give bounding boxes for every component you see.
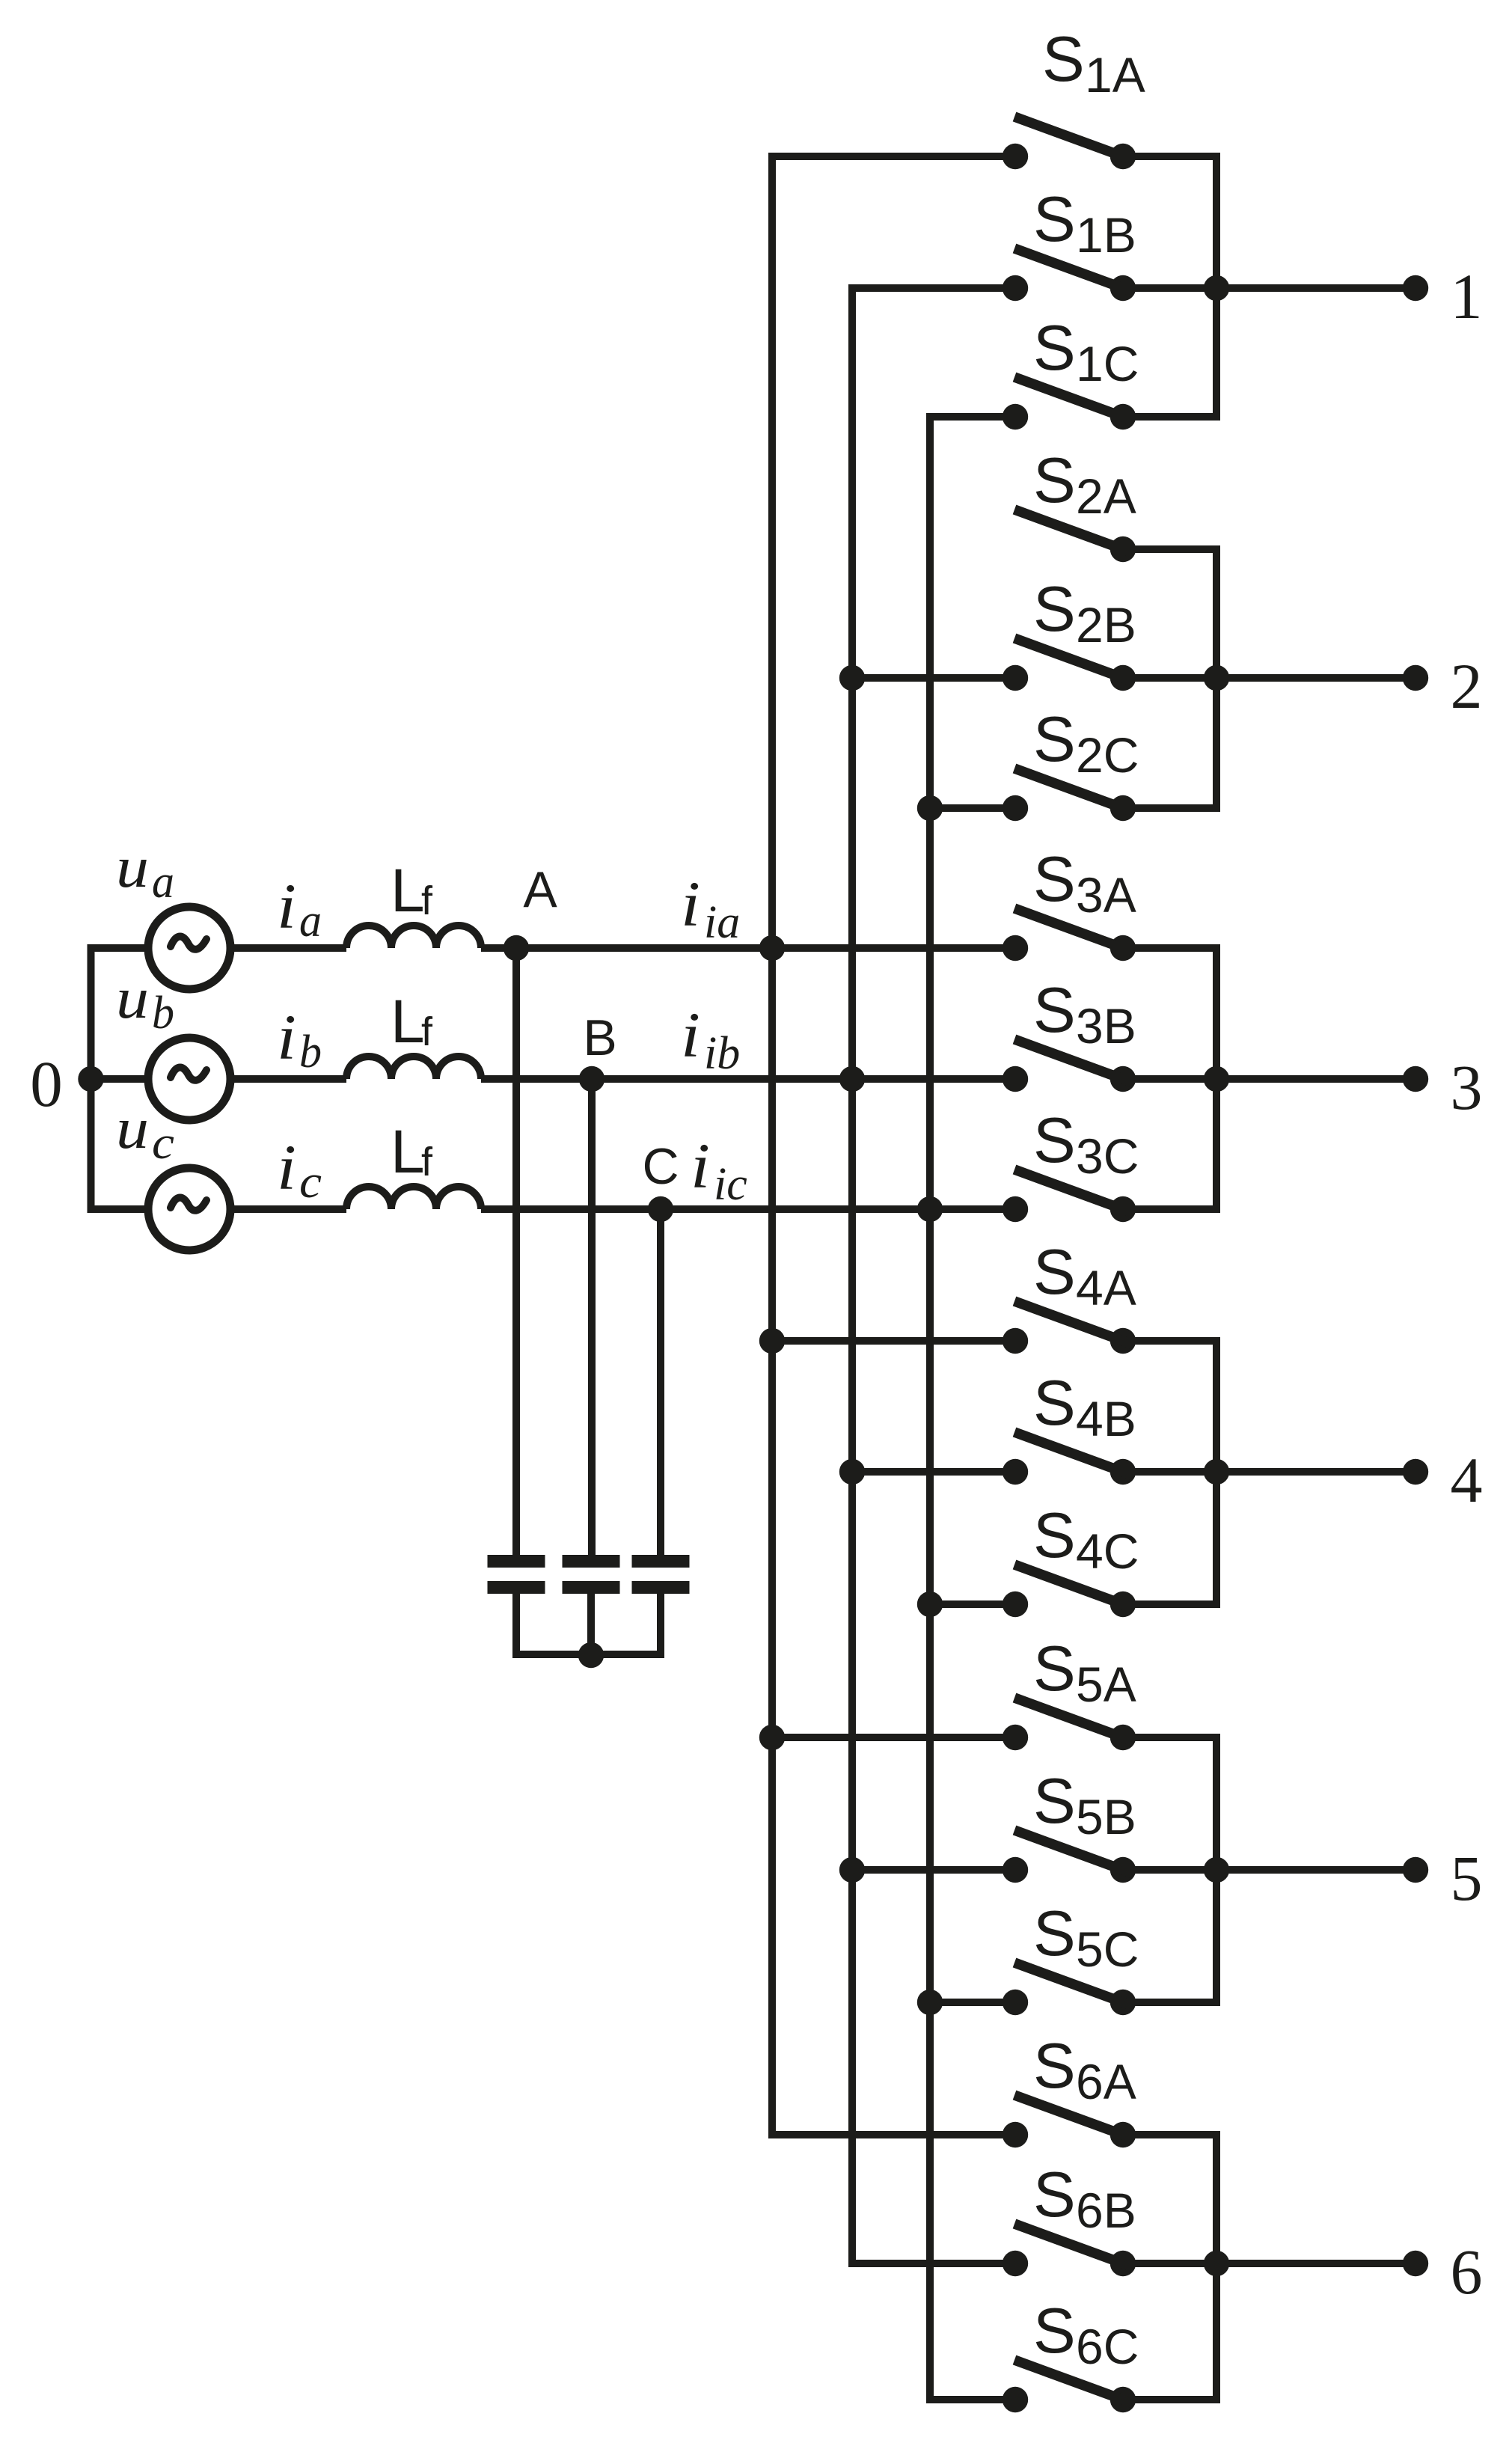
output terminal 3 dot	[1403, 1066, 1428, 1092]
switch S6A right contact	[1110, 2122, 1136, 2147]
wire: node A down to capacitor Ca	[512, 948, 520, 1556]
switch S4C lever	[1014, 1565, 1132, 1608]
output terminal 1 dot	[1403, 275, 1428, 301]
switch S3C lever	[1014, 1170, 1132, 1213]
switch S6C lever	[1014, 2360, 1132, 2403]
svg-text:S: S	[1033, 1105, 1076, 1176]
switch S6A lever	[1014, 2095, 1132, 2138]
svg-text:A: A	[523, 861, 557, 918]
svg-text:3A: 3A	[1076, 867, 1136, 923]
switch S2B left contact	[1003, 665, 1028, 691]
capacitor Ca top plate	[488, 1555, 545, 1568]
switch S3B right contact	[1110, 1066, 1136, 1092]
node A junction dot	[504, 935, 529, 961]
svg-text:4C: 4C	[1076, 1523, 1139, 1579]
switch S2C lever	[1014, 768, 1132, 812]
svg-text:ic: ic	[714, 1159, 747, 1210]
wire: capacitor common bottom rail with corners to Ca and Cc	[516, 1592, 661, 1654]
svg-text:i: i	[691, 1130, 710, 1202]
svg-text:2C: 2C	[1076, 727, 1139, 783]
wire: inductor Lf to switch row S3A (node A row)	[481, 944, 1015, 952]
svg-text:B: B	[583, 1009, 616, 1066]
wire: S1B right contact to group 1 bar	[1123, 284, 1216, 292]
wire: phase A bus to S4A left contact	[772, 1337, 1015, 1345]
switch S5A right contact	[1110, 1725, 1136, 1750]
wire: S2B right contact to group 2 bar	[1123, 674, 1216, 682]
node C junction dot	[648, 1196, 673, 1222]
wire: group 1 bar to output terminal 1	[1216, 284, 1415, 292]
svg-text:S: S	[1033, 1500, 1076, 1571]
svg-text:b: b	[299, 1027, 322, 1077]
switch S6A left contact	[1003, 2122, 1028, 2147]
wire: group 5 output bar (vertical, corners to S5A and S5C right contacts)	[1123, 1737, 1216, 2002]
switch S4A left contact	[1003, 1328, 1028, 1354]
svg-text:1: 1	[1451, 260, 1483, 332]
svg-text:S: S	[1033, 2296, 1076, 2367]
svg-text:c: c	[152, 1118, 174, 1169]
wire: group 3 output bar (vertical, corners to S3A and S3C right contacts)	[1123, 948, 1216, 1209]
switch S4B right contact	[1110, 1459, 1136, 1485]
switch S3B left contact	[1003, 1066, 1028, 1092]
wire: phase B bus (vertical, corners to S1B and S6B)	[852, 288, 1015, 2263]
inductor Lf (phase c)	[346, 1187, 481, 1209]
svg-text:6A: 6A	[1076, 2054, 1136, 2109]
junction: phase B bus tap for S4B	[839, 1459, 865, 1485]
wire: node B down to capacitor Cb	[588, 1079, 596, 1556]
svg-text:u: u	[116, 1095, 149, 1161]
switch S4A right contact	[1110, 1328, 1136, 1354]
junction: group 3 bar at output row	[1204, 1066, 1229, 1092]
wire: group 2 bar to output terminal 2	[1216, 674, 1415, 682]
svg-text:0: 0	[30, 1048, 63, 1120]
switch S4C left contact	[1003, 1592, 1028, 1617]
switch S3A right contact	[1110, 935, 1136, 961]
wire: source ub to inductor Lf	[230, 1075, 346, 1083]
switch S2C right contact	[1110, 795, 1136, 821]
node 0 junction dot	[78, 1066, 103, 1092]
capacitor Ca bottom plate	[488, 1581, 545, 1594]
svg-text:2: 2	[1451, 650, 1483, 722]
svg-text:i: i	[277, 870, 296, 942]
svg-text:i: i	[681, 868, 700, 940]
wire: S4B right contact to group 4 bar	[1123, 1468, 1216, 1476]
svg-text:C: C	[642, 1138, 679, 1195]
wire: S5B right contact to group 5 bar	[1123, 1866, 1216, 1874]
svg-text:f: f	[421, 1140, 433, 1184]
switch S2A right contact	[1110, 536, 1136, 562]
AC source ua sine symbol	[171, 937, 206, 950]
switch S3B lever	[1014, 1039, 1132, 1083]
switch S2C left contact	[1003, 795, 1028, 821]
switch S1A lever	[1014, 117, 1132, 160]
switch S5B left contact	[1003, 1857, 1028, 1883]
wire: phase A bus to S5A left contact	[772, 1734, 1015, 1741]
switch S2B lever	[1014, 638, 1132, 682]
svg-text:5A: 5A	[1076, 1657, 1136, 1712]
junction: phase A bus tap for S5A	[759, 1725, 785, 1750]
svg-text:S: S	[1033, 2031, 1076, 2102]
wire: phase C bus to S5C left contact	[930, 1999, 1015, 2006]
junction: phase A bus tap for S3A	[759, 935, 785, 961]
inductor Lf (phase a)	[346, 926, 481, 948]
svg-text:5B: 5B	[1076, 1789, 1136, 1844]
svg-text:a: a	[299, 896, 322, 947]
junction: phase B bus tap for S5B	[839, 1857, 865, 1883]
junction: group 6 bar at output row	[1204, 2251, 1229, 2276]
switch S5C lever	[1014, 1963, 1132, 2006]
AC source uc sine symbol	[171, 1198, 206, 1211]
wire: inductor Lf to switch row S3C (node C row)	[481, 1205, 1015, 1213]
wire: source ua to inductor Lf	[230, 944, 346, 952]
svg-text:S: S	[1033, 1368, 1076, 1439]
junction: group 4 bar at output row	[1204, 1459, 1229, 1485]
switch S5C right contact	[1110, 1990, 1136, 2015]
wire: S6B right contact to group 6 bar	[1123, 2260, 1216, 2267]
svg-text:S: S	[1033, 445, 1076, 516]
svg-text:3B: 3B	[1076, 998, 1136, 1054]
AC source ub sine symbol	[171, 1068, 206, 1080]
wire: node 0 rail to source ub	[91, 1075, 149, 1083]
svg-text:4: 4	[1451, 1444, 1483, 1516]
capacitor Cc bottom plate	[632, 1581, 690, 1594]
junction: phase C bus tap for S4C	[917, 1592, 943, 1617]
svg-text:4B: 4B	[1076, 1391, 1136, 1446]
junction: group 5 bar at output row	[1204, 1857, 1229, 1883]
wire: S3B right contact to group 3 bar	[1123, 1075, 1216, 1083]
svg-text:f: f	[421, 878, 433, 923]
svg-text:b: b	[152, 988, 174, 1039]
wire: group 3 bar to output terminal 3	[1216, 1075, 1415, 1083]
junction: phase B bus tap for S2B	[839, 665, 865, 691]
wire: phase A bus (vertical, corners to S1A and S6A)	[772, 156, 1015, 2135]
switch S3C left contact	[1003, 1196, 1028, 1222]
switch S1C left contact	[1003, 404, 1028, 429]
AC source ua (circle)	[148, 907, 230, 989]
capacitor Cb bottom plate	[563, 1581, 620, 1594]
wire: group 6 output bar (vertical, corners to S6A and S6C right contacts)	[1123, 2135, 1216, 2400]
capacitor common node dot	[578, 1642, 604, 1668]
wire: phase B bus to S2B left contact	[852, 674, 1015, 682]
switch S6C left contact	[1003, 2387, 1028, 2412]
svg-text:S: S	[1033, 313, 1076, 384]
svg-text:1C: 1C	[1076, 336, 1139, 391]
svg-text:ia: ia	[704, 897, 740, 948]
svg-text:3C: 3C	[1076, 1128, 1139, 1184]
junction: phase A bus tap for S4A	[759, 1328, 785, 1354]
switch S6B lever	[1014, 2224, 1132, 2267]
wire: phase C bus (vertical, corners to S1C and S6C)	[930, 417, 1015, 2400]
svg-text:S: S	[1033, 184, 1076, 255]
wire: phase B bus to S4B left contact	[852, 1468, 1015, 1476]
switch S2A lever	[1014, 510, 1132, 553]
switch S3C right contact	[1110, 1196, 1136, 1222]
svg-text:a: a	[152, 857, 174, 908]
svg-text:2B: 2B	[1076, 597, 1136, 652]
wire: group 2 output bar (vertical, corners to S2A and S2C right contacts)	[1123, 549, 1216, 808]
svg-text:6: 6	[1451, 2236, 1483, 2308]
switch S3A lever	[1014, 908, 1132, 952]
output terminal 5 dot	[1403, 1857, 1428, 1883]
output terminal 6 dot	[1403, 2251, 1428, 2276]
svg-text:i: i	[681, 999, 700, 1071]
wire: source uc to inductor Lf	[230, 1205, 346, 1213]
wire: group 4 bar to output terminal 4	[1216, 1468, 1415, 1476]
switch S3A left contact	[1003, 935, 1028, 961]
switch S1C right contact	[1110, 404, 1136, 429]
svg-text:f: f	[421, 1009, 433, 1054]
switch S1B right contact	[1110, 275, 1136, 301]
junction: group 1 bar at output row	[1204, 275, 1229, 301]
junction: phase C bus tap for S2C	[917, 795, 943, 821]
svg-text:3: 3	[1451, 1051, 1483, 1123]
svg-text:u: u	[116, 834, 149, 899]
svg-text:S: S	[1033, 1237, 1076, 1308]
svg-text:L: L	[391, 857, 425, 925]
svg-text:S: S	[1033, 844, 1076, 915]
svg-text:S: S	[1033, 2159, 1076, 2231]
wire: phase C bus to S4C left contact	[930, 1600, 1015, 1608]
svg-text:4A: 4A	[1076, 1260, 1136, 1315]
svg-text:5: 5	[1451, 1842, 1483, 1914]
svg-text:L: L	[391, 1118, 425, 1186]
svg-text:S: S	[1033, 1633, 1076, 1704]
svg-text:c: c	[299, 1157, 322, 1208]
svg-text:5C: 5C	[1076, 1921, 1139, 1977]
junction: phase C bus tap for S3C	[917, 1196, 943, 1222]
switch S5C left contact	[1003, 1990, 1028, 2015]
wire: node C down to capacitor Cc	[657, 1209, 664, 1556]
capacitor Cb top plate	[563, 1555, 620, 1568]
svg-text:S: S	[1033, 1898, 1076, 1969]
svg-text:S: S	[1033, 975, 1076, 1046]
switch S1B lever	[1014, 248, 1132, 292]
wire: phase C bus to S2C left contact	[930, 804, 1015, 812]
svg-text:6B: 6B	[1076, 2183, 1136, 2238]
switch S5B lever	[1014, 1830, 1132, 1874]
svg-text:S: S	[1033, 574, 1076, 645]
wire: capacitor Cb to common node	[587, 1592, 595, 1654]
switch S2B right contact	[1110, 665, 1136, 691]
svg-text:S: S	[1042, 24, 1085, 95]
switch S6C right contact	[1110, 2387, 1136, 2412]
junction: phase B bus tap for S3B	[839, 1066, 865, 1092]
svg-text:1A: 1A	[1085, 47, 1145, 103]
switch S5A lever	[1014, 1698, 1132, 1741]
inductor Lf (phase b)	[346, 1057, 481, 1079]
output terminal 4 dot	[1403, 1459, 1428, 1485]
node B junction dot	[579, 1066, 605, 1092]
svg-text:u: u	[116, 965, 149, 1030]
switch S1B left contact	[1003, 275, 1028, 301]
AC source uc (circle)	[148, 1168, 230, 1250]
switch S4A lever	[1014, 1301, 1132, 1345]
svg-text:S: S	[1033, 704, 1076, 775]
junction: group 2 bar at output row	[1204, 665, 1229, 691]
svg-text:1B: 1B	[1076, 207, 1136, 263]
switch S1A right contact	[1110, 144, 1136, 169]
switch S6B right contact	[1110, 2251, 1136, 2276]
svg-text:2A: 2A	[1076, 468, 1136, 524]
wire: node 0 rail (left vertical with corners to sources ua and uc)	[91, 948, 149, 1209]
switch S4B lever	[1014, 1432, 1132, 1476]
wire: group 5 bar to output terminal 5	[1216, 1866, 1415, 1874]
svg-text:ib: ib	[704, 1028, 740, 1079]
switch S1C lever	[1014, 377, 1132, 421]
switch S6B left contact	[1003, 2251, 1028, 2276]
wire: inductor Lf to switch row S3B (node B row)	[481, 1075, 1015, 1083]
wire: group 6 bar to output terminal 6	[1216, 2260, 1415, 2267]
svg-text:i: i	[277, 1001, 296, 1073]
switch S1A left contact	[1003, 144, 1028, 169]
switch S5A left contact	[1003, 1725, 1028, 1750]
svg-text:i: i	[277, 1131, 296, 1203]
svg-text:6C: 6C	[1076, 2319, 1139, 2374]
svg-text:S: S	[1033, 1766, 1076, 1837]
wire: group 1 output bar (vertical, corners to S1A and S1C right contacts)	[1123, 156, 1216, 417]
output terminal 2 dot	[1403, 665, 1428, 691]
switch S4C right contact	[1110, 1592, 1136, 1617]
switch S5B right contact	[1110, 1857, 1136, 1883]
wire: group 4 output bar (vertical, corners to S4A and S4C right contacts)	[1123, 1341, 1216, 1604]
wire: phase B bus to S5B left contact	[852, 1866, 1015, 1874]
svg-text:L: L	[391, 988, 425, 1056]
capacitor Cc top plate	[632, 1555, 690, 1568]
junction: phase C bus tap for S5C	[917, 1990, 943, 2015]
AC source ub (circle)	[148, 1038, 230, 1120]
switch S4B left contact	[1003, 1459, 1028, 1485]
